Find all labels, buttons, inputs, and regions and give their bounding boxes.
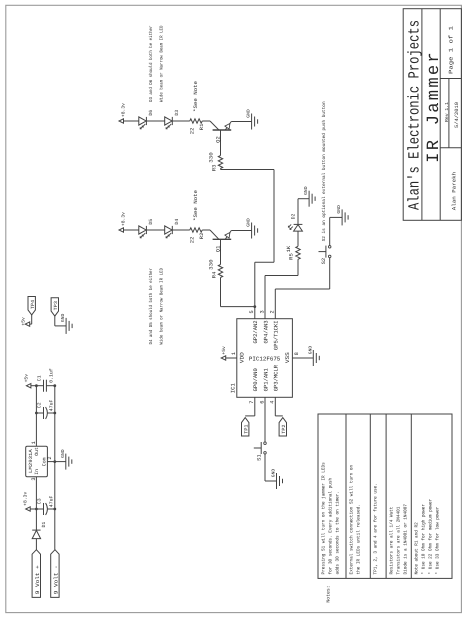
svg-text:D4: D4 — [174, 219, 180, 225]
svg-text:9 Volt -: 9 Volt - — [54, 565, 60, 594]
svg-text:GP5/T1CKI: GP5/T1CKI — [273, 320, 280, 350]
svg-text:D3: D3 — [174, 110, 180, 116]
svg-text:+8.3v: +8.3v — [121, 103, 127, 117]
svg-text:C3: C3 — [37, 498, 43, 504]
svg-text:4: 4 — [270, 401, 276, 404]
svg-text:Wide beam or Narrow Beam IR LE: Wide beam or Narrow Beam IR LED — [158, 25, 164, 102]
svg-text:Resistors are all 1/4 Watt: Resistors are all 1/4 Watt — [389, 506, 395, 574]
svg-text:8: 8 — [294, 352, 300, 355]
svg-text:GND: GND — [272, 468, 277, 477]
svg-text:Alan Parekh: Alan Parekh — [452, 172, 458, 210]
svg-text:In: In — [34, 469, 40, 475]
svg-text:R1: R1 — [199, 124, 205, 131]
svg-text:S2: S2 — [321, 258, 327, 265]
svg-text:1: 1 — [231, 352, 237, 355]
svg-text:S2 is an optional external but: S2 is an optional external button mounte… — [321, 101, 327, 241]
svg-text:6: 6 — [259, 401, 265, 404]
svg-text:*See Note: *See Note — [193, 81, 199, 112]
svg-text:Q1: Q1 — [215, 246, 221, 253]
svg-text:47uF: 47uF — [49, 495, 55, 507]
svg-text:5/4/2010: 5/4/2010 — [454, 102, 460, 128]
svg-text:Page 1 of 1: Page 1 of 1 — [448, 25, 455, 74]
svg-text:adds 30 seconds to the on time: adds 30 seconds to the on timer. — [334, 491, 340, 575]
svg-text:+5v: +5v — [221, 346, 227, 355]
svg-text:the IR LEDs until released.: the IR LEDs until released. — [355, 504, 361, 574]
svg-text:PIC12F675: PIC12F675 — [249, 356, 281, 363]
svg-text:22: 22 — [189, 128, 195, 135]
svg-text:22: 22 — [189, 237, 195, 244]
svg-text:D4 and D5 should both be eithe: D4 and D5 should both be either — [148, 268, 154, 345]
svg-text:D1: D1 — [41, 522, 47, 528]
svg-text:S1: S1 — [256, 454, 262, 461]
svg-text:D2: D2 — [291, 213, 297, 219]
svg-text:47uF: 47uF — [49, 399, 55, 411]
svg-text:2: 2 — [47, 456, 53, 459]
svg-text:Rev 1.1: Rev 1.1 — [444, 102, 450, 122]
svg-text:External switch connection S2: External switch connection S2 will turn … — [348, 465, 354, 575]
svg-text:GP1/AN1: GP1/AN1 — [262, 368, 269, 392]
svg-text:Out: Out — [34, 447, 40, 456]
svg-text:1K: 1K — [286, 246, 292, 253]
svg-text:D5: D5 — [148, 219, 154, 225]
svg-text:Diode is a 1N4001 or 1N4007: Diode is a 1N4001 or 1N4007 — [403, 504, 409, 575]
svg-text:GND: GND — [247, 218, 252, 227]
svg-text:GND: GND — [61, 449, 66, 458]
svg-text:2: 2 — [270, 310, 276, 313]
svg-text:Q2: Q2 — [215, 136, 221, 143]
svg-text:GP0/AN0: GP0/AN0 — [252, 368, 259, 391]
svg-text:* Use 33 Ohm for low power: * Use 33 Ohm for low power — [435, 506, 441, 574]
svg-text:R5: R5 — [288, 253, 294, 260]
svg-text:C2: C2 — [37, 402, 43, 408]
svg-text:3: 3 — [31, 477, 37, 480]
svg-text:Note about R1 and R2: Note about R1 and R2 — [414, 522, 420, 574]
svg-text:330: 330 — [209, 152, 215, 163]
svg-text:0.1uf: 0.1uf — [49, 368, 55, 383]
svg-text:TP4: TP4 — [30, 300, 36, 309]
svg-text:LM2931A: LM2931A — [28, 449, 34, 473]
svg-text:GP3/MCLR: GP3/MCLR — [273, 364, 280, 391]
svg-text:GP4/AN3: GP4/AN3 — [262, 320, 269, 343]
svg-text:TP1, 2, 3 and 4 are for future: TP1, 2, 3 and 4 are for future use. — [373, 483, 379, 574]
svg-text:5: 5 — [249, 310, 255, 313]
svg-text:GP2/AN2: GP2/AN2 — [252, 320, 259, 343]
svg-text:IR Jammer: IR Jammer — [425, 52, 444, 163]
svg-text:* Use 10 Ohm for high power: * Use 10 Ohm for high power — [421, 504, 427, 575]
svg-text:IC1: IC1 — [230, 382, 237, 393]
svg-text:GND: GND — [247, 109, 252, 118]
svg-text:TP2: TP2 — [281, 424, 287, 433]
svg-text:GND: GND — [308, 345, 313, 354]
svg-text:Transistors are all 2N4401: Transistors are all 2N4401 — [396, 506, 402, 574]
svg-text:+8.3v: +8.3v — [121, 212, 127, 226]
svg-text:R4: R4 — [212, 272, 218, 279]
svg-text:TP3: TP3 — [53, 301, 59, 310]
svg-text:Wide beam or Narrow Beam IR LE: Wide beam or Narrow Beam IR LED — [158, 268, 164, 345]
svg-text:GND: GND — [337, 205, 342, 214]
svg-text:+5v: +5v — [21, 317, 27, 326]
svg-text:*See Note: *See Note — [193, 190, 199, 221]
svg-text:7: 7 — [249, 401, 255, 404]
svg-text:GND: GND — [61, 313, 66, 322]
svg-text:C1: C1 — [37, 375, 43, 381]
svg-text:330: 330 — [209, 259, 215, 270]
svg-text:3: 3 — [259, 310, 265, 313]
svg-text:R2: R2 — [199, 233, 205, 240]
svg-text:+8.3v: +8.3v — [23, 492, 29, 506]
svg-text:R3: R3 — [212, 165, 218, 172]
svg-text:GND: GND — [304, 186, 309, 195]
svg-text:* Use 22 Ohm for medium power: * Use 22 Ohm for medium power — [428, 499, 434, 575]
svg-text:VSS: VSS — [284, 351, 291, 363]
svg-text:Pressing S1 will turn on the j: Pressing S1 will turn on the jammer IR L… — [320, 462, 326, 574]
svg-text:Alan's Electronic Projects: Alan's Electronic Projects — [406, 20, 424, 210]
svg-text:for 30 seconds. Every addition: for 30 seconds. Every additional push — [327, 478, 333, 575]
svg-text:9 Volt +: 9 Volt + — [35, 565, 41, 594]
svg-text:VDD: VDD — [239, 351, 246, 363]
svg-text:+5v: +5v — [23, 374, 29, 383]
svg-text:Notes:: Notes: — [326, 585, 332, 602]
svg-text:TP1: TP1 — [244, 424, 250, 433]
svg-text:D3 and D6 should both be eithe: D3 and D6 should both be either — [148, 25, 154, 102]
svg-text:D6: D6 — [148, 110, 154, 116]
